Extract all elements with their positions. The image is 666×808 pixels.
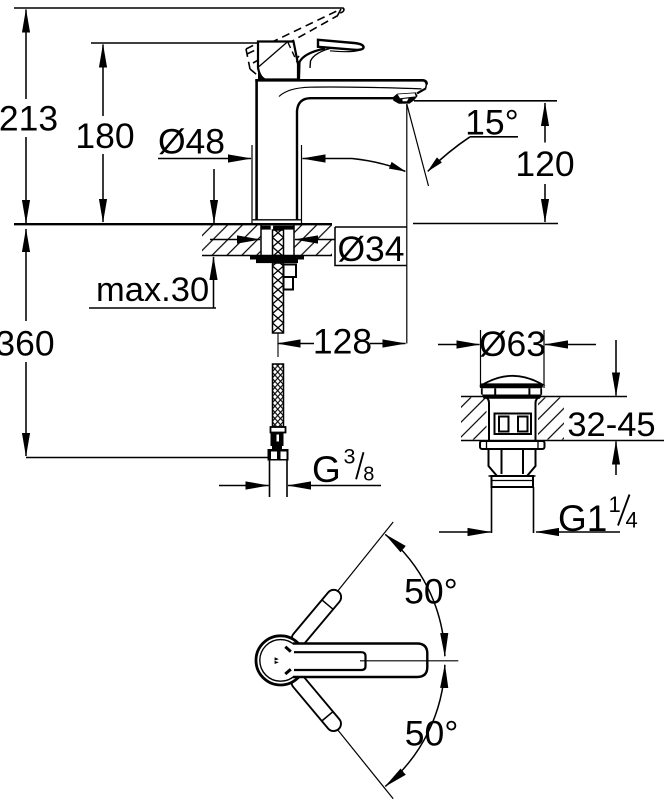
svg-text:8: 8 — [363, 464, 374, 486]
svg-text:213: 213 — [0, 99, 58, 139]
svg-text:120: 120 — [515, 144, 574, 184]
svg-text:max.30: max.30 — [96, 271, 209, 309]
svg-text:32-45: 32-45 — [567, 406, 655, 444]
svg-text:3: 3 — [344, 445, 356, 469]
svg-text:15°: 15° — [465, 103, 519, 143]
svg-text:50°: 50° — [405, 714, 459, 754]
svg-text:G1: G1 — [558, 498, 607, 539]
svg-text:Ø63: Ø63 — [479, 324, 546, 364]
svg-text:4: 4 — [626, 508, 638, 533]
svg-text:180: 180 — [75, 116, 134, 156]
svg-text:1: 1 — [609, 492, 621, 517]
svg-text:Ø48: Ø48 — [158, 122, 225, 162]
svg-text:50°: 50° — [404, 572, 458, 612]
svg-text:Ø34: Ø34 — [337, 229, 404, 269]
svg-text:G: G — [312, 449, 341, 490]
svg-text:128: 128 — [313, 322, 372, 362]
svg-text:360: 360 — [0, 324, 55, 364]
